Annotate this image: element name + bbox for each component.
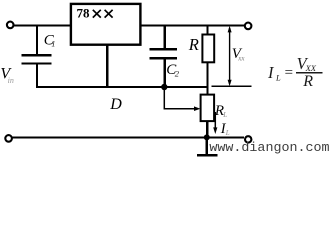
bottom-left terminal xyxy=(5,135,12,142)
capacitor C1 bottom lead xyxy=(36,64,38,88)
resistor R top lead xyxy=(206,26,208,36)
junction node (ground) xyxy=(204,134,210,140)
svg-text:1: 1 xyxy=(51,39,55,49)
capacitor C1 top lead xyxy=(36,26,38,56)
output terminal (top-right) xyxy=(245,23,252,30)
Vxx reference line xyxy=(212,85,252,87)
capacitor C2 plates xyxy=(150,48,178,50)
svg-text:=: = xyxy=(284,65,294,81)
label IL xyxy=(220,121,230,137)
svg-text:R: R xyxy=(302,73,313,90)
label 78×× xyxy=(77,6,113,21)
IL current arrow xyxy=(213,112,217,134)
ground xyxy=(197,137,217,155)
label Vin xyxy=(0,66,13,85)
svg-text:78: 78 xyxy=(77,6,91,21)
formula IL = Vxx / R xyxy=(267,54,323,90)
svg-text:D: D xyxy=(109,96,122,113)
label RL xyxy=(214,103,227,119)
svg-text:L: L xyxy=(222,111,227,119)
label Vxx xyxy=(232,46,246,63)
svg-text:in: in xyxy=(8,76,14,85)
svg-text:2: 2 xyxy=(175,68,180,78)
label C2 xyxy=(166,62,180,78)
capacitor C2 bottom lead xyxy=(163,58,165,87)
svg-text:xx: xx xyxy=(237,55,245,63)
resistor R bottom lead xyxy=(206,62,208,95)
resistor R body xyxy=(202,35,214,63)
bottom wire xyxy=(12,137,244,139)
svg-text:XX: XX xyxy=(305,63,317,73)
wire: regulator box to output terminal xyxy=(140,25,244,27)
junction node (C2 / D rail) xyxy=(161,84,167,90)
resistor RL bottom lead xyxy=(206,121,208,138)
svg-text:L: L xyxy=(275,73,281,83)
svg-text:I: I xyxy=(267,63,275,82)
regulator ground pin xyxy=(106,45,108,88)
Vxx dimension arrow xyxy=(228,26,232,87)
middle wire (common node D rail) xyxy=(36,86,209,88)
label C1 xyxy=(44,32,56,48)
svg-text:www.diangon.com: www.diangon.com xyxy=(209,141,329,156)
wire: input terminal to regulator box xyxy=(14,25,71,27)
resistor RL body xyxy=(201,95,215,122)
arrow from node to load RL xyxy=(164,87,200,111)
svg-text:L: L xyxy=(225,129,230,137)
svg-text:R: R xyxy=(188,35,199,54)
input terminal (top-left) xyxy=(7,22,14,29)
op-amp/regulator U1 78xx box xyxy=(71,4,140,45)
bottom-right terminal xyxy=(245,136,251,142)
capacitor C2 top lead xyxy=(163,26,165,50)
capacitor C1 plates xyxy=(22,54,52,56)
